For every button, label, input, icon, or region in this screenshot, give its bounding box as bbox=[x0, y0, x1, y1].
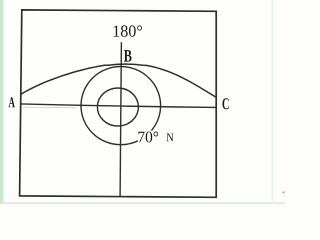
outer circle (70 N parallel) bbox=[81, 67, 161, 145]
map frame rectangle bbox=[20, 10, 217, 197]
tiny scan speck bottom right bbox=[283, 191, 285, 193]
node B label bbox=[124, 50, 132, 62]
arc A-B-C (horizon arc) bbox=[21, 64, 217, 97]
faint scan ghost under horizontal line bbox=[23, 106, 76, 109]
page background bbox=[0, 0, 285, 204]
green page rule right bbox=[272, 0, 274, 204]
green page edge left bbox=[0, 0, 6, 204]
white gap behind 70 N label bbox=[138, 131, 159, 143]
node A label bbox=[9, 97, 15, 107]
label 70 degrees N bbox=[138, 132, 158, 143]
inner circle bbox=[97, 88, 138, 126]
green page edge bottom bbox=[0, 202, 285, 204]
label 180 degrees bbox=[114, 25, 142, 36]
node C label bbox=[222, 98, 228, 109]
meridian line (180 degrees, through B) bbox=[120, 42, 121, 196]
horizontal line A-C bbox=[21, 104, 216, 108]
